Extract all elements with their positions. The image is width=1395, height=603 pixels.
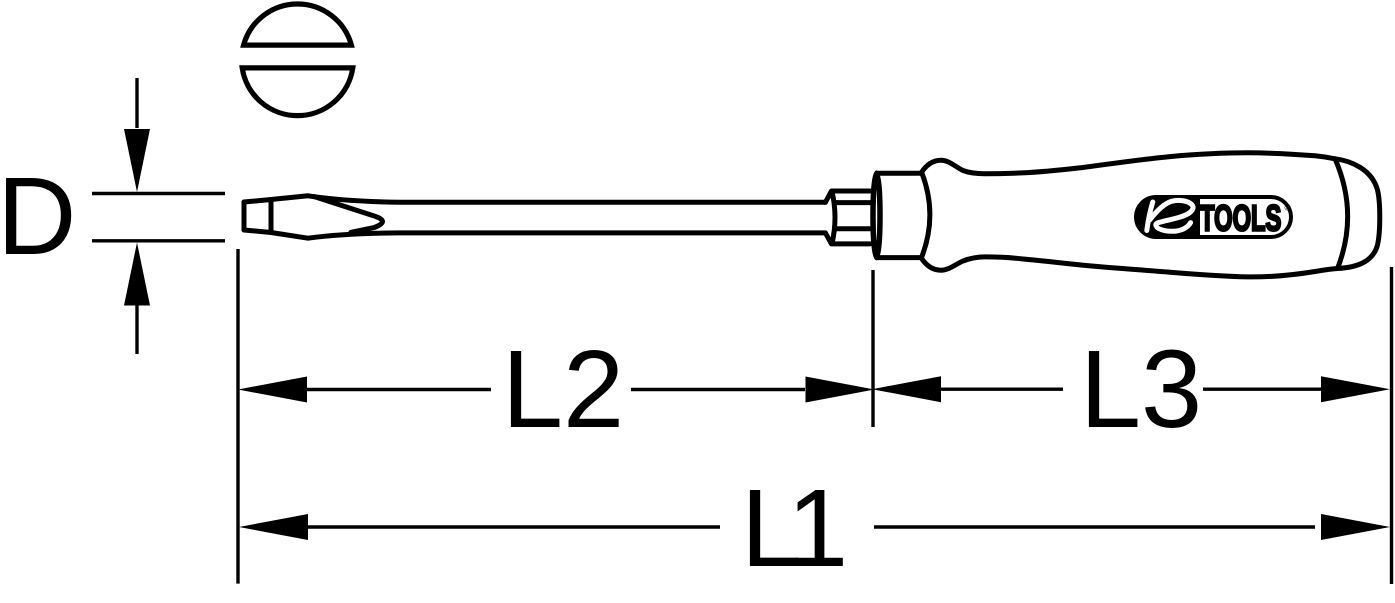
svg-text:D: D — [0, 155, 76, 278]
svg-text:®: ® — [1285, 203, 1292, 213]
svg-text:L2: L2 — [502, 328, 624, 451]
svg-text:L1: L1 — [741, 467, 843, 590]
svg-text:L3: L3 — [1080, 328, 1202, 451]
svg-text:TOOLS: TOOLS — [1200, 199, 1281, 239]
